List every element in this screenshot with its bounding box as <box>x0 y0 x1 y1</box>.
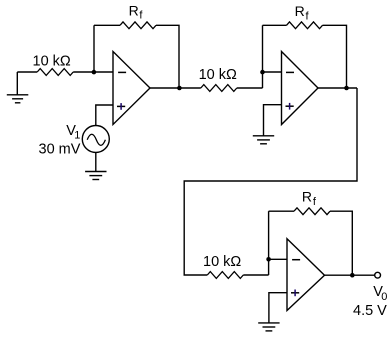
svg-text:f: f <box>306 11 310 23</box>
op-amp U2 <box>282 52 319 125</box>
resistor R2 10 kOhm (stage 2 input) <box>201 85 237 92</box>
svg-text:0: 0 <box>381 291 387 303</box>
node A junction dot (U1 inverting node) <box>92 70 97 75</box>
output terminal Vo (open circle) <box>375 272 381 278</box>
U2 plus sign <box>286 105 294 107</box>
svg-text:f: f <box>139 9 143 21</box>
resistor Rf (stage 1 feedback) <box>120 22 156 29</box>
resistor R1 10 kOhm (stage 1 input) <box>37 69 73 76</box>
node D junction dot (U2 output / feedback) <box>344 86 349 91</box>
svg-text:10 kΩ: 10 kΩ <box>199 67 237 83</box>
wire: U3 output to terminal <box>325 274 375 276</box>
resistor Rf (stage 2 feedback) <box>287 22 323 29</box>
wire: U2 non-inverting input to GND3 <box>264 105 282 136</box>
wire: V1 to GND2 <box>95 153 97 172</box>
node B junction dot (U1 output) <box>177 86 182 91</box>
node C junction dot (U2 inverting node) <box>260 70 265 75</box>
node F junction dot (U3 output) <box>350 273 355 278</box>
resistor Rf (stage 3 feedback) <box>294 208 330 215</box>
svg-text:R: R <box>295 3 305 19</box>
svg-text:f: f <box>313 196 317 208</box>
svg-text:30 mV: 30 mV <box>39 141 81 157</box>
wire: U2 output to right <box>318 87 357 89</box>
svg-text:10 kΩ: 10 kΩ <box>203 254 241 270</box>
wire: GND1 to R1 <box>17 71 37 73</box>
wire: U1 non-inverting input to source V1 <box>96 105 113 126</box>
wire: node E to U3 inverting input <box>269 258 287 260</box>
ground GND4 (under U3) <box>258 323 279 331</box>
op-amp U1 <box>113 52 150 125</box>
wire: Rf3 left horizontal <box>269 210 294 212</box>
wire: Rf2 right horizontal and down to U2 output <box>323 25 347 88</box>
wire: U3 non-inverting input to GND4 <box>269 293 287 323</box>
U3 plus sign <box>291 292 299 294</box>
U2 minus sign <box>286 71 294 73</box>
op-amp U3 <box>287 239 325 311</box>
wire: vertical through node C up to Rf2 <box>262 25 264 88</box>
U1 minus sign <box>118 71 126 73</box>
svg-text:R: R <box>129 2 139 18</box>
source V1 (sine source circle) <box>82 126 109 153</box>
svg-text:10 kΩ: 10 kΩ <box>33 54 71 70</box>
wire: U1 output to R2 <box>150 87 201 89</box>
wire: Rf2 left horizontal <box>263 24 287 26</box>
ground GND3 (under U2) <box>253 136 274 144</box>
U3 minus sign <box>292 259 300 261</box>
wire: R2 to corner below U2 inverting node <box>237 87 263 89</box>
U1 plus sign <box>117 105 125 107</box>
wire: Rf1 left horizontal <box>94 24 120 26</box>
svg-text:1: 1 <box>74 129 80 141</box>
wire: vertical through node E up to Rf3 <box>268 211 270 275</box>
ground GND1 (left input) <box>7 72 29 103</box>
svg-text:R: R <box>302 188 312 204</box>
node E junction dot (U3 inverting node) <box>266 257 271 262</box>
wire: node A up to Rf1 <box>93 25 95 72</box>
svg-text:4.5 V: 4.5 V <box>353 303 387 319</box>
wire: node C to U2 inverting input <box>263 71 282 73</box>
wire: R1 to op-amp U1 inverting input, node A <box>73 71 113 73</box>
wire: Rf1 right horizontal and down to U1 output <box>156 25 179 88</box>
wire: R3 to corner below U3 inverting node <box>243 274 268 276</box>
resistor R3 10 kOhm (stage 3 input) <box>207 272 243 279</box>
ground GND2 (under V1) <box>85 172 106 180</box>
wire: Rf3 right horizontal and down to U3 output <box>330 211 352 275</box>
wire: U2 output routed down, left and down to stage 3 <box>184 88 357 275</box>
